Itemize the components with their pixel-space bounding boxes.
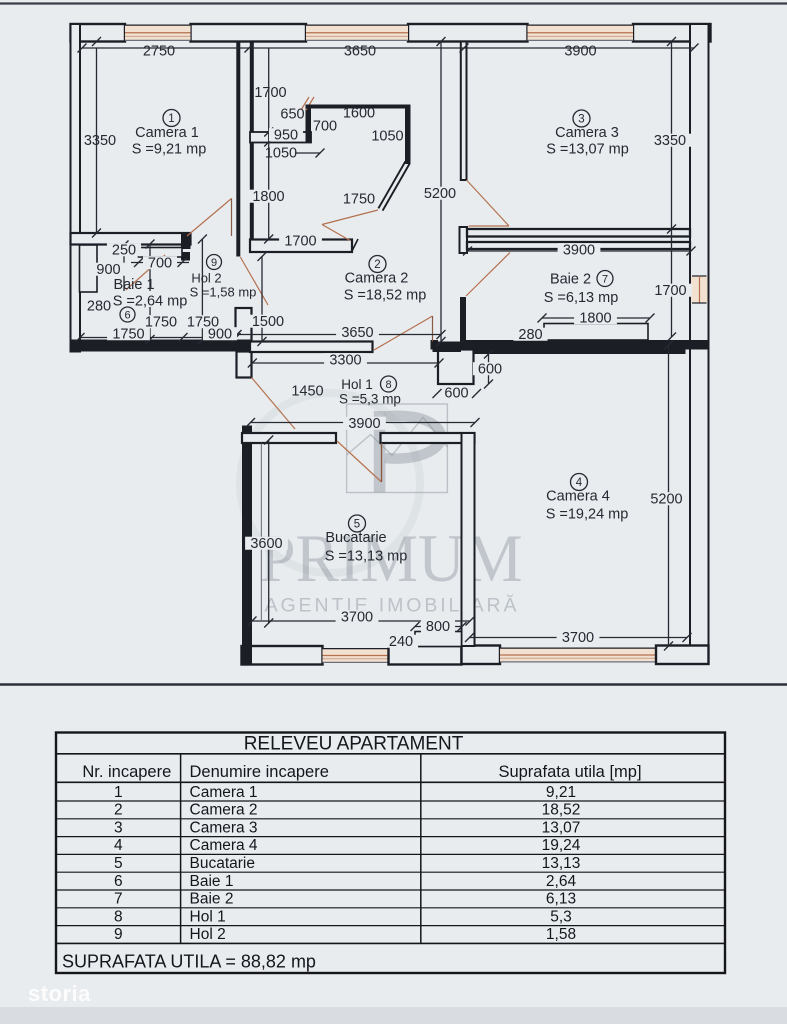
room hol2 number xyxy=(207,255,222,270)
watermark logo circle swirl xyxy=(240,393,420,573)
svg-text:Baie 2: Baie 2 xyxy=(190,891,234,908)
closet shelf band 950 xyxy=(250,132,311,143)
svg-text:1750: 1750 xyxy=(112,327,144,343)
svg-text:S =13,13 mp: S =13,13 mp xyxy=(325,549,408,565)
svg-text:1050: 1050 xyxy=(265,146,297,162)
svg-text:RELEVEU APARTAMENT: RELEVEU APARTAMENT xyxy=(244,734,464,755)
table row line 2 xyxy=(56,818,725,820)
dim 5200 camera2 xyxy=(419,187,462,200)
dim line right 5200 lower xyxy=(668,345,670,646)
kitchen counter 800 xyxy=(415,632,462,647)
svg-text:2750: 2750 xyxy=(143,44,175,60)
svg-text:9,21: 9,21 xyxy=(546,784,576,801)
bottom window camera 4 xyxy=(500,648,656,663)
table column line 1 xyxy=(180,754,182,944)
dim 280 baie2 xyxy=(513,328,547,341)
wall camera1 bottom xyxy=(71,233,191,245)
door nook to camera2 xyxy=(322,210,378,225)
svg-text:6,13: 6,13 xyxy=(546,891,576,908)
svg-text:3650: 3650 xyxy=(341,325,373,341)
dim line 600 vertical xyxy=(488,354,490,384)
svg-text:900: 900 xyxy=(208,327,232,343)
svg-text:3900: 3900 xyxy=(564,44,596,60)
camera4 top wall xyxy=(471,345,686,355)
bottom page rule xyxy=(0,683,787,685)
dim 1750 baie1 v xyxy=(140,315,183,328)
svg-text:3350: 3350 xyxy=(654,133,686,149)
table row line 8 xyxy=(56,925,725,927)
dim 280 baie1 xyxy=(82,299,116,312)
dim 1800 baie2 xyxy=(574,311,617,324)
door camera1 xyxy=(187,199,232,237)
svg-text:3700: 3700 xyxy=(562,630,594,646)
right exterior wall xyxy=(690,24,709,664)
room baie1 area xyxy=(116,291,188,307)
svg-text:Camera 1: Camera 1 xyxy=(190,784,258,801)
svg-text:1500: 1500 xyxy=(252,314,284,330)
dim line mid vertical nook xyxy=(268,48,270,239)
bucatarie top wall left xyxy=(242,433,336,443)
table title underline xyxy=(56,753,725,755)
dim 3900 baie2 xyxy=(558,243,601,256)
svg-text:S =19,24 mp: S =19,24 mp xyxy=(546,507,629,523)
dim 240 xyxy=(384,635,418,648)
svg-text:7: 7 xyxy=(114,891,123,908)
nook bottom wall xyxy=(250,240,352,253)
room camera4 number xyxy=(571,474,588,491)
svg-text:5: 5 xyxy=(114,855,123,872)
svg-text:3: 3 xyxy=(114,819,123,836)
dim line 3600 bucatarie xyxy=(268,440,270,623)
svg-text:650: 650 xyxy=(280,107,304,123)
svg-text:4: 4 xyxy=(114,837,123,854)
baie2 west wall xyxy=(460,297,466,342)
svg-text:8: 8 xyxy=(385,379,391,391)
svg-text:2: 2 xyxy=(374,259,380,271)
svg-text:2: 2 xyxy=(114,802,123,819)
svg-text:700: 700 xyxy=(313,119,337,135)
window top 1 xyxy=(125,25,191,42)
svg-text:Hol 1: Hol 1 xyxy=(190,908,226,925)
svg-text:9: 9 xyxy=(114,926,123,943)
dim line left 3350 xyxy=(96,48,98,233)
dim 600 h xyxy=(433,389,442,398)
dim line baie1 700 xyxy=(131,262,189,264)
svg-text:Hol 1: Hol 1 xyxy=(341,377,373,392)
dim 700 baie1 xyxy=(143,256,177,269)
dim 3700 camera4 xyxy=(557,631,600,644)
wall V2 camera1 east xyxy=(250,42,254,243)
room baie2 number xyxy=(597,271,613,287)
nook top wall xyxy=(306,105,411,109)
svg-text:800: 800 xyxy=(426,619,450,635)
svg-text:Bucatarie: Bucatarie xyxy=(190,855,255,872)
top wall pier 1 xyxy=(71,24,126,42)
door baie1 xyxy=(126,255,165,290)
door hol1 entry xyxy=(252,378,296,430)
table row line 5 xyxy=(56,871,725,873)
baie2 north bar xyxy=(467,242,690,249)
svg-text:S =2,64 mp: S =2,64 mp xyxy=(113,294,188,310)
svg-text:Camera 3: Camera 3 xyxy=(555,125,619,141)
svg-text:8: 8 xyxy=(114,908,123,925)
window top 3 xyxy=(528,25,634,42)
watermark logo square xyxy=(347,404,448,493)
svg-text:1050: 1050 xyxy=(371,129,403,145)
table row line 4 xyxy=(56,853,725,855)
dim 800 xyxy=(421,620,455,633)
svg-text:4: 4 xyxy=(576,477,583,489)
watermark logo P letter xyxy=(374,411,386,493)
stub below bottom wall xyxy=(237,352,252,378)
dim 3700 kitchen xyxy=(336,610,379,623)
bottom wall camera4-left block xyxy=(462,646,501,665)
dim 3350 right xyxy=(649,134,692,147)
door hol2 to camera2 xyxy=(240,257,268,305)
svg-text:700: 700 xyxy=(148,256,172,272)
dim line baie1 vertical 1750 xyxy=(149,244,151,340)
table outer border xyxy=(56,733,725,974)
dim line 3300 xyxy=(252,362,439,364)
dim 950 xyxy=(269,128,303,141)
svg-text:3350: 3350 xyxy=(84,133,116,149)
svg-text:1,58: 1,58 xyxy=(546,926,576,943)
dim line 3900 hol1 xyxy=(251,422,476,424)
dim line 3900 baie2 xyxy=(468,250,692,252)
dim line 1500 xyxy=(261,257,263,342)
door jamb camera1 xyxy=(181,233,191,249)
svg-text:S =5,3 mp: S =5,3 mp xyxy=(339,392,401,407)
wall hol2/camera2 pier xyxy=(236,308,252,342)
svg-text:S =6,13 mp: S =6,13 mp xyxy=(544,290,619,306)
svg-text:6: 6 xyxy=(124,309,130,321)
svg-text:900: 900 xyxy=(96,262,120,278)
svg-text:1700: 1700 xyxy=(254,85,286,101)
svg-text:18,52: 18,52 xyxy=(542,802,581,819)
svg-text:1450: 1450 xyxy=(291,384,323,400)
dim line baie1 900 xyxy=(123,245,125,297)
dim line 3700 camera4 xyxy=(470,637,688,639)
svg-text:Camera 2: Camera 2 xyxy=(190,802,258,819)
watermark logo roof lines xyxy=(347,417,448,455)
bottom window kitchen xyxy=(323,648,389,663)
bucatarie top wall right xyxy=(381,433,475,443)
wall baie1 south jamb xyxy=(181,252,190,261)
svg-text:1700: 1700 xyxy=(654,283,686,299)
table row line 3 xyxy=(56,836,725,838)
svg-text:1700: 1700 xyxy=(284,234,316,250)
svg-text:AGENȚIE IMOBILIARĂ: AGENȚIE IMOBILIARĂ xyxy=(265,594,520,617)
door camera3 xyxy=(467,180,510,226)
svg-text:13,13: 13,13 xyxy=(542,855,581,872)
svg-text:Camera 1: Camera 1 xyxy=(135,125,199,141)
window top 2 xyxy=(306,25,408,42)
baie1 fixture left xyxy=(80,245,98,292)
svg-text:SUPRAFATA UTILA = 88,82 mp: SUPRAFATA UTILA = 88,82 mp xyxy=(62,952,316,972)
bottom-right corner block xyxy=(656,646,709,665)
svg-text:Suprafata utila [mp]: Suprafata utila [mp] xyxy=(498,763,641,781)
dim line 800 xyxy=(415,626,462,628)
svg-text:S =1,58 mp: S =1,58 mp xyxy=(190,285,257,300)
svg-text:Camera 4: Camera 4 xyxy=(546,489,610,505)
svg-text:5200: 5200 xyxy=(650,492,682,508)
camera2 bottom wall left xyxy=(250,342,373,353)
svg-text:S =9,21 mp: S =9,21 mp xyxy=(132,142,207,158)
left section bottom wall xyxy=(71,340,252,352)
dim 3600 xyxy=(245,537,288,550)
room camera1 number xyxy=(163,110,180,127)
table row line 7 xyxy=(56,907,725,909)
table column line 2 xyxy=(420,754,422,944)
room baie1 number xyxy=(120,307,135,322)
baie2 bottom wall xyxy=(461,340,708,350)
svg-text:3600: 3600 xyxy=(250,536,282,552)
nook bottom wall jamb slant xyxy=(352,239,358,251)
svg-text:2,64: 2,64 xyxy=(546,873,577,890)
svg-text:600: 600 xyxy=(444,386,468,402)
baie1 sink xyxy=(139,248,183,258)
dim line camera2 5200 xyxy=(440,42,442,342)
svg-text:250: 250 xyxy=(112,243,136,259)
svg-text:3650: 3650 xyxy=(344,44,376,60)
dim 600 v xyxy=(473,362,507,375)
left exterior wall xyxy=(71,24,81,352)
dim 3650 mid xyxy=(336,326,379,339)
svg-text:6: 6 xyxy=(114,873,123,890)
top wall pier 2 xyxy=(191,24,307,42)
svg-text:3900: 3900 xyxy=(348,416,380,432)
svg-text:13,07: 13,07 xyxy=(542,819,581,836)
svg-text:S =18,52 mp: S =18,52 mp xyxy=(344,288,427,304)
door bucatarie xyxy=(337,441,382,482)
svg-text:Nr. incapere: Nr. incapere xyxy=(82,763,171,781)
dim line right 3350/1700 xyxy=(671,42,673,338)
bucatarie/camera4 divider wall xyxy=(462,433,475,646)
svg-text:1: 1 xyxy=(168,113,174,125)
bottom wall kitchen-left block xyxy=(242,646,323,665)
svg-text:Denumire incapere: Denumire incapere xyxy=(190,763,329,781)
table row line 1 xyxy=(56,800,725,802)
kitchen wall extension line xyxy=(260,443,262,620)
hol1 pillar xyxy=(438,350,474,385)
svg-text:1: 1 xyxy=(114,784,123,801)
dim line top xyxy=(82,47,694,49)
dim 1700 nook bottom xyxy=(279,234,322,247)
camera2 bottom wall right xyxy=(433,342,462,353)
dim line 3700 kitchen xyxy=(252,620,470,622)
bottom wall mid block xyxy=(389,646,462,665)
top page rule xyxy=(0,2,787,4)
dim 1700 baie2 xyxy=(649,284,692,297)
dim line baie1/hol2 bottom xyxy=(80,337,236,339)
svg-text:1800: 1800 xyxy=(579,311,611,327)
nook diagonal wall xyxy=(378,161,409,210)
svg-text:600: 600 xyxy=(478,362,502,378)
camera3 south bar xyxy=(467,229,690,237)
nook right wall xyxy=(405,105,411,165)
svg-text:3700: 3700 xyxy=(341,610,373,626)
bracket wall baie2 west top xyxy=(460,227,468,253)
svg-text:Camera 3: Camera 3 xyxy=(190,819,258,836)
dim line 3650 mid xyxy=(237,334,441,336)
svg-text:19,24: 19,24 xyxy=(542,837,581,854)
svg-text:3900: 3900 xyxy=(563,243,595,259)
svg-text:240: 240 xyxy=(389,634,413,650)
dim 5200 camera4 xyxy=(645,492,688,505)
svg-text:5: 5 xyxy=(354,519,360,531)
dim 1750 hol2 v xyxy=(182,315,225,328)
room camera2 number xyxy=(369,256,386,273)
hol1 pillar notch xyxy=(431,340,439,350)
svg-text:5,3: 5,3 xyxy=(550,908,572,925)
svg-text:Bucatarie: Bucatarie xyxy=(325,530,386,546)
svg-text:Camera 4: Camera 4 xyxy=(190,837,258,854)
door camera2 south xyxy=(374,316,433,350)
room camera3 number xyxy=(573,110,590,127)
dim 250 baie1 xyxy=(107,243,141,256)
svg-text:5200: 5200 xyxy=(424,186,456,202)
svg-text:9: 9 xyxy=(211,257,217,269)
svg-text:1600: 1600 xyxy=(343,106,375,122)
dim 900 hol2 h xyxy=(203,327,237,340)
svg-text:3: 3 xyxy=(578,114,584,126)
svg-text:280: 280 xyxy=(87,299,111,315)
dim line hol2 vertical 1750 xyxy=(201,239,203,340)
svg-text:1800: 1800 xyxy=(252,189,284,205)
table header underline xyxy=(56,781,725,783)
svg-text:Baie 1: Baie 1 xyxy=(113,277,154,293)
door baie2 xyxy=(466,253,510,297)
svg-text:Hol 2: Hol 2 xyxy=(191,271,221,286)
dim 3900 hol1 xyxy=(343,417,386,430)
top wall pier 4 xyxy=(633,24,711,42)
svg-text:7: 7 xyxy=(602,273,608,285)
dim 1500 xyxy=(247,315,290,328)
door jamb slashes nook xyxy=(301,97,309,110)
svg-text:Baie 2: Baie 2 xyxy=(550,272,591,288)
svg-text:S =13,07 mp: S =13,07 mp xyxy=(546,142,629,158)
dim 3300 xyxy=(324,353,367,366)
svg-text:Baie 1: Baie 1 xyxy=(190,873,234,890)
svg-text:280: 280 xyxy=(518,327,542,343)
bottom page shading xyxy=(0,1007,787,1024)
svg-text:1750: 1750 xyxy=(343,192,375,208)
svg-text:Hol 2: Hol 2 xyxy=(190,926,226,943)
svg-text:storia: storia xyxy=(28,981,91,1006)
dim 1800 nook xyxy=(247,190,290,203)
table footer top line xyxy=(56,942,725,944)
dim 1750 baie1 h xyxy=(107,327,150,340)
closet east wall xyxy=(306,105,312,143)
baie2 bathtub xyxy=(544,324,648,341)
wall V1 closet/hol2 west xyxy=(236,42,240,257)
bucatarie left wall xyxy=(242,426,252,665)
dim line 1800 baie2 xyxy=(542,317,650,319)
room hol1 number xyxy=(381,376,397,392)
wall camera2/camera3 divider xyxy=(461,42,467,181)
svg-text:950: 950 xyxy=(274,128,298,144)
top wall pier 3 xyxy=(408,24,528,42)
window right (Baie 2) xyxy=(691,276,708,303)
room bucatarie number xyxy=(349,515,366,532)
svg-text:3300: 3300 xyxy=(329,353,361,369)
dim 900 baie1 xyxy=(91,263,125,276)
table row line 6 xyxy=(56,889,725,891)
svg-text:Camera 2: Camera 2 xyxy=(345,271,409,287)
